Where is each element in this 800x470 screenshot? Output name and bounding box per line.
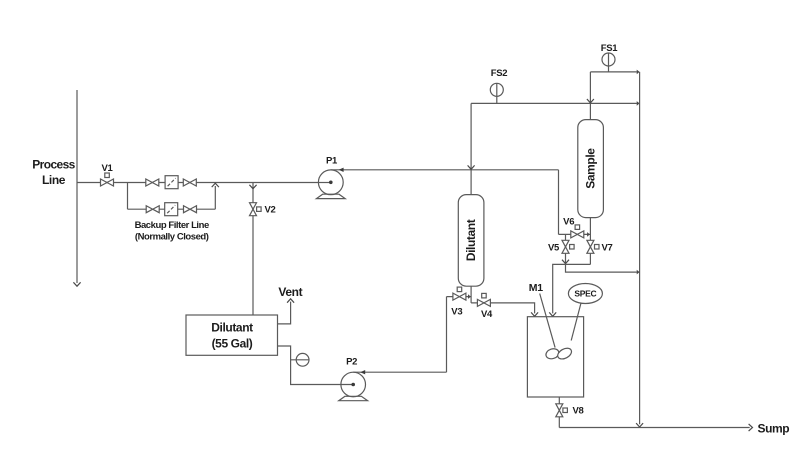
valve V5 [562, 240, 574, 253]
svg-text:P1: P1 [326, 156, 338, 167]
wire FS1 stem [608, 53, 610, 72]
wire sample top drop [589, 72, 591, 120]
svg-text:Sump: Sump [758, 422, 790, 436]
valve backup top right [183, 179, 196, 186]
valve backup bottom right [184, 206, 197, 213]
valve V6 [571, 225, 584, 238]
svg-text:Sample: Sample [584, 148, 598, 189]
flow switch FS2 [490, 83, 503, 96]
wire right overflow vertical [639, 72, 641, 424]
wire P1 outlet [331, 169, 559, 171]
valve backup bottom left [146, 206, 159, 213]
arrow process line down [73, 282, 80, 286]
svg-text:(55 Gal): (55 Gal) [212, 337, 253, 351]
wire FS2 stem [496, 83, 498, 103]
svg-text:V2: V2 [265, 205, 276, 216]
svg-text:Dilutant: Dilutant [464, 219, 478, 261]
valve V3 [453, 287, 466, 300]
svg-text:Line: Line [42, 173, 66, 187]
wire V5 drop [565, 234, 567, 264]
pump P1 [318, 170, 343, 195]
valve V2 [250, 203, 262, 216]
svg-text:Backup Filter Line: Backup Filter Line [135, 220, 209, 231]
wire FS1 line [590, 71, 636, 73]
leader SPEC [571, 303, 581, 341]
svg-text:Dilutant: Dilutant [211, 321, 253, 335]
arrow into mixer top [549, 312, 556, 316]
arrow V2 down [249, 185, 256, 189]
wire V2 drop to tank [252, 183, 254, 316]
arrow overflow right [637, 270, 640, 275]
wire backup merge up [214, 186, 216, 209]
wire vent [278, 302, 291, 324]
svg-text:SPEC: SPEC [574, 289, 596, 299]
svg-text:Vent: Vent [278, 285, 302, 299]
instrument stub [291, 359, 309, 361]
arrow V5 bottom up [562, 260, 569, 264]
valve V7 [587, 240, 599, 253]
wire tank outlet to P2 [278, 346, 354, 385]
arrow into P1 line junction [468, 165, 475, 169]
arrow V3 right [468, 294, 471, 299]
pump P2 [341, 372, 366, 397]
wire sample bottom [589, 218, 591, 265]
svg-text:P2: P2 [346, 357, 357, 368]
node P1 center dot [329, 181, 333, 185]
wire V3 drop to P2 line [446, 297, 448, 373]
tank Dilutant 55 Gal [186, 315, 278, 355]
filter F2 [165, 203, 178, 216]
arrow FS1 line right [637, 70, 640, 75]
wire drop to V5 V6 [558, 170, 560, 235]
wire P1 inlet into center [318, 182, 330, 184]
arrow P2 outlet [360, 370, 365, 374]
wire V6 horizontal [559, 233, 591, 235]
svg-text:FS2: FS2 [491, 68, 508, 79]
valve backup top left [146, 179, 159, 186]
tank mixer M1 [527, 317, 583, 397]
mixer impeller [545, 347, 561, 360]
wire backup branch down [127, 183, 129, 210]
vessel Dilutant column [458, 195, 484, 287]
wire V7 bottom across [566, 263, 591, 265]
arrow backup merge up [212, 183, 219, 187]
balloon SPEC [568, 284, 602, 304]
arrow vent up [287, 299, 294, 303]
arrow V6 right [587, 232, 590, 237]
svg-text:V6: V6 [563, 217, 574, 228]
arrow sump right [749, 424, 753, 431]
wire mixer bottom to V8 [558, 397, 560, 428]
arrow into header junction [587, 99, 594, 103]
wire P2 outlet [353, 371, 446, 373]
svg-text:V7: V7 [601, 243, 612, 254]
svg-text:Process: Process [32, 158, 75, 172]
svg-text:V1: V1 [101, 163, 113, 174]
valve V4 [477, 293, 490, 306]
wire V4 line [471, 303, 534, 314]
wire V3 line [447, 296, 472, 298]
filter F1 [165, 176, 178, 189]
svg-text:V3: V3 [451, 306, 462, 317]
svg-text:(Normally Closed): (Normally Closed) [135, 231, 209, 242]
wire sump line [559, 427, 749, 429]
wire header drop to Dilutant column [470, 103, 472, 194]
node P2 center dot [351, 383, 355, 387]
arrow V4 into mixer [531, 312, 538, 316]
wire top header line [471, 102, 637, 104]
arrow right vertical down [636, 423, 643, 427]
instrument circle [296, 353, 309, 366]
svg-text:V4: V4 [481, 309, 493, 320]
valve V8 [556, 404, 568, 417]
wire junction to overflow [566, 264, 637, 272]
wire main horizontal line [77, 182, 331, 184]
wire dilutant bottom stem [470, 286, 472, 303]
svg-text:V5: V5 [548, 243, 560, 254]
leader M1 [540, 294, 555, 348]
arrow P1 outlet [339, 168, 344, 172]
svg-text:M1: M1 [529, 282, 543, 294]
wire backup bottom line [128, 208, 216, 210]
svg-text:FS1: FS1 [601, 43, 619, 54]
vessel Sample [578, 120, 604, 218]
flow switch FS1 [602, 53, 615, 66]
valve V1 [101, 173, 114, 186]
arrow top header right [637, 101, 640, 106]
wire process line vertical [76, 90, 78, 283]
wire junction to mixer elbow [553, 264, 566, 313]
svg-text:V8: V8 [572, 406, 583, 417]
